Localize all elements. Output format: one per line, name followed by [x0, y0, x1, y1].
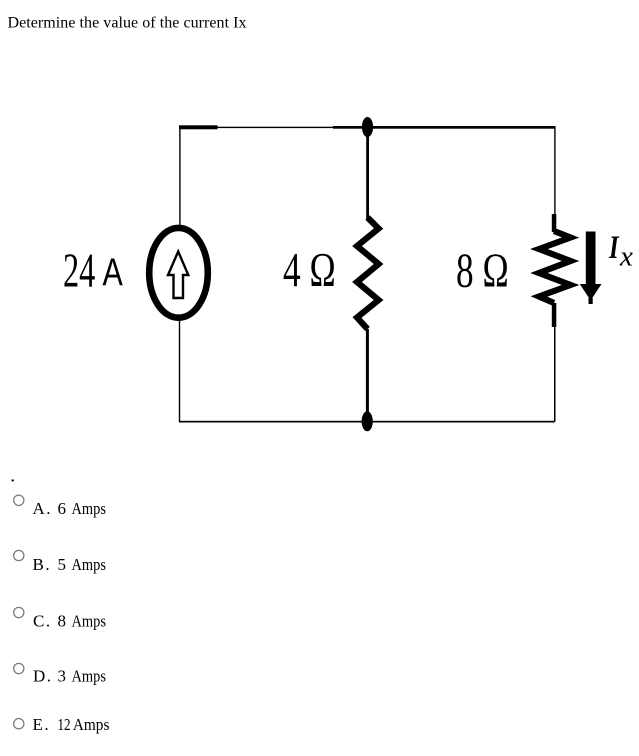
- option B text: [33, 555, 107, 574]
- node: bottom junction dot: [362, 411, 373, 431]
- svg-text:8: 8: [58, 612, 67, 631]
- svg-text:A.: A.: [33, 499, 53, 518]
- resistor R2 8ohm bottom lead: [552, 303, 557, 327]
- resistor R1 4ohm zigzag: [357, 218, 379, 330]
- wire: middle vertical upper: [366, 127, 369, 219]
- svg-text:12: 12: [58, 715, 71, 734]
- wire: top-left thick segment: [179, 125, 218, 129]
- radio button A: [14, 495, 24, 505]
- wire: bottom horizontal: [179, 421, 555, 423]
- wire: left vertical lower: [179, 321, 180, 423]
- wire: right vertical lower: [554, 327, 556, 422]
- wire: top-right thick segment: [333, 126, 556, 129]
- radio button B: [14, 550, 24, 560]
- svg-text:C.: C.: [33, 612, 52, 631]
- svg-text:Amps: Amps: [72, 555, 107, 574]
- svg-text:4 Ω: 4 Ω: [283, 244, 336, 298]
- svg-text:D.: D.: [33, 667, 53, 686]
- svg-text:Amps: Amps: [72, 499, 107, 518]
- svg-text:Determine the value of the cur: Determine the value of the current Ix: [8, 15, 247, 32]
- svg-text:6: 6: [58, 499, 67, 518]
- label: 4 ohm: [283, 244, 336, 298]
- svg-text:Amps: Amps: [72, 667, 107, 686]
- svg-text:5: 5: [58, 555, 67, 574]
- option E text: [33, 715, 110, 734]
- current source I1 arrow (up): [168, 252, 188, 299]
- svg-text:A: A: [103, 251, 124, 294]
- svg-text:8 Ω: 8 Ω: [456, 244, 509, 298]
- label: 8 ohm: [456, 244, 509, 298]
- wire: left vertical upper: [179, 127, 180, 226]
- label: A (source units): [103, 251, 124, 294]
- radio button C: [14, 607, 24, 617]
- question title text: [8, 15, 247, 32]
- option A text: [33, 499, 107, 518]
- svg-text:3: 3: [58, 667, 67, 686]
- svg-text:Amps: Amps: [73, 715, 110, 734]
- radio button E: [14, 719, 24, 729]
- resistor R2 8ohm top lead: [552, 214, 557, 232]
- label: 24: [63, 243, 96, 297]
- wire: top thin segment: [217, 127, 333, 128]
- svg-text:24: 24: [63, 243, 96, 297]
- wire: right vertical upper: [554, 127, 555, 216]
- node: top junction dot: [362, 117, 373, 137]
- svg-text:Amps: Amps: [72, 612, 107, 631]
- svg-text:I: I: [608, 230, 620, 266]
- label: Ix current: [608, 230, 633, 273]
- current source I1 ellipse: [149, 228, 208, 318]
- option C text: [33, 612, 106, 631]
- svg-text:E.: E.: [33, 715, 51, 734]
- resistor R2 8ohm zigzag: [539, 231, 571, 303]
- option D text: [33, 667, 106, 686]
- wire: middle vertical lower: [366, 329, 369, 412]
- radio button D: [14, 663, 24, 673]
- stray period mark: [12, 480, 14, 482]
- current arrow Ix (down): [580, 232, 602, 305]
- svg-text:x: x: [619, 241, 633, 273]
- svg-text:B.: B.: [33, 555, 52, 574]
